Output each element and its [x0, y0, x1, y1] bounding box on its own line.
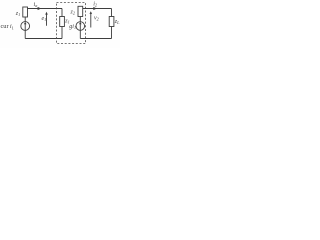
wire top left loop: [28, 8, 63, 10]
resistor Z2: [78, 6, 83, 16]
wire Z11 bottom lead: [61, 27, 63, 39]
wire bottom right loop: [80, 38, 111, 40]
wire I2 bottom: [79, 30, 81, 38]
wire ZL bottom lead: [111, 27, 113, 39]
svg-text:z2: z2: [70, 10, 75, 16]
svg-text:ia: ia: [34, 1, 38, 8]
wire ZL top lead: [111, 9, 113, 17]
wire Z2 to I2: [79, 17, 81, 22]
svg-text:v2: v2: [94, 15, 99, 21]
resistor ZL: [109, 17, 114, 27]
wire Z1 to I1: [24, 17, 26, 22]
resistor Z11: [60, 17, 65, 27]
wire I1 bottom: [24, 30, 26, 38]
current source I1: [21, 22, 30, 31]
voltage arrow v1: [46, 13, 48, 26]
svg-text:z1: z1: [15, 11, 20, 17]
current arrow i1: [38, 7, 42, 10]
svg-text:e1: e1: [42, 16, 47, 22]
dashed network boundary box: [57, 3, 86, 44]
wire bottom left loop: [25, 38, 62, 40]
svg-text:i2: i2: [93, 1, 97, 8]
voltage arrow v2: [90, 13, 92, 28]
dependent current source I2: [76, 22, 85, 31]
resistor Z1: [23, 7, 28, 17]
wire Z11 top lead: [61, 9, 63, 17]
svg-text:gi1: gi1: [69, 24, 76, 30]
svg-text:zL: zL: [114, 19, 120, 25]
current arrow i2: [93, 7, 97, 10]
wire top right loop: [83, 8, 112, 10]
